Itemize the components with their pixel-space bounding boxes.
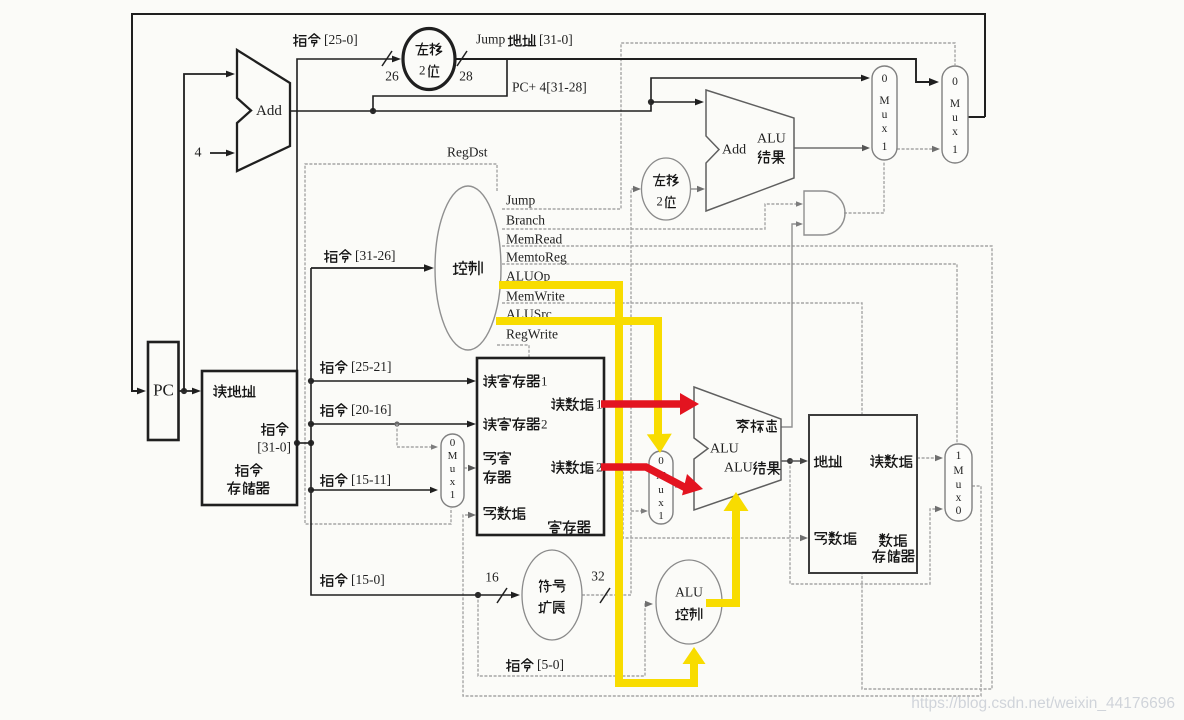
svg-text:2: 2 <box>541 416 548 431</box>
highlight yellow ALUSrc path from control to ALUSrc mux <box>496 321 658 436</box>
wire data memory read data to MemtoReg mux input 1 <box>917 457 939 459</box>
svg-text:[25-0]: [25-0] <box>324 32 358 47</box>
node PC+4 junction at x651 <box>648 99 654 105</box>
svg-text:Jump: Jump <box>476 32 506 47</box>
svg-text:0: 0 <box>658 455 664 467</box>
svg-text:0: 0 <box>882 73 888 85</box>
svg-text:1: 1 <box>882 141 888 153</box>
svg-text:x: x <box>882 123 888 135</box>
wire constant 4 into Add <box>210 152 231 154</box>
wire shift-left-2 number 2 output to branch adder <box>691 188 701 190</box>
wire jump mux output <box>968 116 985 118</box>
wire sign extend output riser to shift-left-2 and ALUSrc mux <box>582 189 638 595</box>
wire instruction[15-11] to RegDst mux input 1 <box>308 487 314 493</box>
svg-text:MemWrite: MemWrite <box>506 289 565 304</box>
mux jump mux top right <box>942 66 968 163</box>
wire read data 2 branch to data memory write data <box>623 467 805 538</box>
wire PC+4[31-28] tap up to jump address line <box>373 59 507 111</box>
wire MemtoReg control to MemtoReg mux select <box>502 264 957 443</box>
label instruction[15-0] <box>321 574 347 587</box>
wire write-back from MemtoReg mux around bottom to registers write data <box>463 486 981 696</box>
svg-text:[15-0]: [15-0] <box>351 572 385 587</box>
svg-text:M: M <box>879 95 889 107</box>
wire Branch control from control unit to AND gate input <box>502 204 801 229</box>
adder Add for PC+4 <box>237 50 290 171</box>
label instruction[25-21] <box>321 361 347 374</box>
svg-text:Add: Add <box>256 103 282 119</box>
svg-text:x: x <box>956 492 962 504</box>
mux RegDst write register mux <box>441 434 464 507</box>
wire RegDst mux output to write register <box>464 467 472 469</box>
svg-text:[31-26]: [31-26] <box>355 248 396 263</box>
svg-text:u: u <box>956 479 962 491</box>
mux MemtoReg <box>945 444 972 521</box>
mux branch PCSrc mux top right <box>872 66 897 160</box>
wire AND gate output to branch mux select <box>844 161 884 213</box>
wire riser PC value to Add input <box>184 74 231 391</box>
shift left 2 oval top <box>403 29 455 90</box>
svg-text:26: 26 <box>385 69 399 84</box>
svg-text:u: u <box>882 109 888 121</box>
node PC+4 tap for jump concat <box>370 108 376 114</box>
svg-text:ALU: ALU <box>757 132 786 147</box>
svg-text:1: 1 <box>956 450 962 462</box>
svg-text:16: 16 <box>485 570 499 585</box>
svg-text:1: 1 <box>450 489 456 501</box>
wire PC+4 into branch adder top input <box>651 101 700 103</box>
svg-text:M: M <box>950 98 960 110</box>
svg-text:2: 2 <box>419 62 426 77</box>
wire instruction[25-0] riser to shift-left-2 <box>297 59 397 443</box>
svg-text:PC: PC <box>153 380 174 399</box>
ALU control oval <box>656 560 722 644</box>
svg-text:ALU: ALU <box>675 585 703 600</box>
node sign extend input junction instruction[5-0] tap <box>475 592 481 598</box>
highlight yellow ALUOp path from control to ALU control <box>499 285 694 683</box>
wire instruction[31-26] into control <box>311 267 429 269</box>
slash 26-bit width mark <box>382 51 392 66</box>
svg-text:1: 1 <box>952 144 958 156</box>
svg-text:4: 4 <box>195 146 202 161</box>
node sign-extend branch junction <box>631 510 645 512</box>
svg-text:u: u <box>658 484 664 496</box>
wire ALU control output under yellow (hidden) <box>723 602 737 604</box>
svg-text:1: 1 <box>658 510 664 522</box>
wire ALU result bypass to MemtoReg mux input 0 <box>790 461 939 584</box>
slash 32-bit width mark <box>600 588 610 603</box>
svg-text:ALU: ALU <box>724 461 753 476</box>
wire Jump control from control unit to top-right mux select <box>502 43 955 209</box>
svg-text:ALU: ALU <box>710 442 739 457</box>
svg-text:28: 28 <box>459 69 473 84</box>
svg-text:RegWrite: RegWrite <box>506 327 558 342</box>
svg-text:https://blog.csdn.net/weixin_4: https://blog.csdn.net/weixin_44176696 <box>911 695 1175 712</box>
node PC output junction <box>181 388 187 394</box>
svg-text:PC+ 4[31-28]: PC+ 4[31-28] <box>512 80 587 95</box>
svg-text:MemRead: MemRead <box>506 232 562 247</box>
mux ALUSrc <box>649 451 673 524</box>
wire instruction[25-21] to read register 1 <box>308 378 314 384</box>
wire PC output to instruction memory and Add riser <box>178 390 197 392</box>
registers box <box>477 358 604 535</box>
svg-text:x: x <box>952 126 958 138</box>
highlight red read data 1 to ALU <box>601 400 683 408</box>
svg-text:[5-0]: [5-0] <box>537 657 564 672</box>
register PC <box>148 342 179 440</box>
svg-text:Jump: Jump <box>506 193 536 208</box>
control unit oval <box>435 186 501 350</box>
label instruction[20-16] <box>321 404 347 417</box>
svg-text:M: M <box>953 465 963 477</box>
wire MemWrite control to data memory top <box>502 303 862 414</box>
node instruction[20-16] branch to RegDst mux <box>394 421 399 426</box>
svg-text:Add: Add <box>722 143 746 158</box>
sign extend oval <box>522 550 582 640</box>
label instruction[31-26] <box>325 250 351 262</box>
wire RegWrite control to registers top <box>497 345 529 357</box>
wire jump address[31-0] from shift-left-2 to jump mux input 0 <box>455 59 934 82</box>
svg-text:RegDst: RegDst <box>447 145 488 160</box>
svg-text:[25-21]: [25-21] <box>351 359 392 374</box>
slash 16-bit width mark <box>497 588 507 603</box>
label instruction[25-0] <box>294 34 320 47</box>
highlight red read data 2 through mux to ALU <box>601 467 686 488</box>
node ALU result junction <box>787 458 793 464</box>
svg-text:M: M <box>448 450 458 462</box>
svg-text:0: 0 <box>956 505 962 517</box>
svg-text:[20-16]: [20-16] <box>351 402 392 417</box>
wire zero flag from ALU to AND gate <box>781 224 801 427</box>
svg-text:Branch: Branch <box>506 213 545 228</box>
svg-text:2: 2 <box>657 194 663 208</box>
wire PC+4 from Add output to branch adder and mux riser <box>291 78 866 111</box>
wire instruction[20-16] to read register 2 <box>308 421 314 427</box>
wire ALUSrc mux output to ALU lower input (under red) <box>675 486 688 488</box>
svg-text:0: 0 <box>952 76 958 88</box>
wire mux1 output to jump mux input 1 <box>897 148 936 150</box>
label instruction[15-11] <box>321 474 347 487</box>
data memory box <box>809 415 917 573</box>
instruction memory box <box>202 371 297 505</box>
wire RegDst control from control top around left to write-register mux bottom <box>305 164 497 524</box>
svg-text:x: x <box>450 476 456 488</box>
shift left 2 oval number 2 <box>642 158 691 220</box>
svg-text:0: 0 <box>450 437 456 449</box>
highlight yellow ALU control output to ALU <box>706 510 736 603</box>
label instruction[5-0] <box>507 659 533 672</box>
wire register read data 2 to ALUSrc mux input 0 (under red) <box>604 466 643 468</box>
slash 28-bit width mark <box>457 51 467 66</box>
wire register read data 1 to ALU input (under red) <box>604 403 688 405</box>
wire instruction[5-0] to ALU control <box>478 595 650 676</box>
wire branch adder output to branch mux input 1 <box>794 147 866 149</box>
svg-text:u: u <box>450 463 456 475</box>
wire MemRead control loop to data memory bottom <box>502 246 992 689</box>
wire PC feedback from jump mux output around top to PC input <box>132 14 985 391</box>
svg-text:[31-0]: [31-0] <box>539 32 573 47</box>
wire instruction field bus vertical <box>311 268 516 595</box>
wire instruction memory output to field bus <box>297 442 311 444</box>
wire ALU result to data memory address <box>790 460 804 462</box>
AND gate branch <box>804 191 845 235</box>
svg-text:u: u <box>952 112 958 124</box>
ALU main <box>694 387 781 510</box>
adder branch target Add <box>706 90 794 211</box>
svg-text:1: 1 <box>541 373 548 388</box>
svg-text:x: x <box>658 497 664 509</box>
svg-text:32: 32 <box>591 569 605 584</box>
svg-text:MemtoReg: MemtoReg <box>506 250 567 265</box>
svg-text:[31-0]: [31-0] <box>257 440 291 455</box>
wire ALU zero output stub <box>781 460 790 462</box>
svg-text:[15-11]: [15-11] <box>351 472 391 487</box>
